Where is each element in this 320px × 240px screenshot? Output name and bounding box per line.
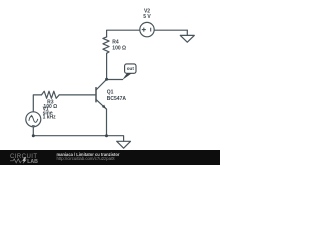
emitter arrow <box>102 105 106 109</box>
svg-text:LAB: LAB <box>27 159 38 165</box>
svg-text:5 V: 5 V <box>143 14 151 20</box>
node B <box>32 134 35 137</box>
wire <box>154 29 187 31</box>
V2 plus sign <box>142 28 146 32</box>
wire <box>32 127 34 136</box>
footer logo zigzag <box>10 159 21 163</box>
svg-text:http://circuitlab.com/c7u2zpa0: http://circuitlab.com/c7u2zpa0t <box>57 156 116 161</box>
wire <box>106 109 108 136</box>
out flag <box>122 64 136 80</box>
V1 sine arrowhead <box>30 115 33 118</box>
node A <box>105 78 108 81</box>
wire <box>33 95 41 112</box>
wire <box>107 30 140 37</box>
svg-text:out: out <box>127 66 135 71</box>
ground <box>117 141 131 148</box>
V1 sine symbol <box>29 116 38 122</box>
transistor Q1 <box>95 88 97 102</box>
footer logo bolt <box>22 157 26 163</box>
svg-text:BC547A: BC547A <box>107 96 127 102</box>
V1 minus sign <box>32 125 35 127</box>
node C <box>105 134 108 137</box>
wire <box>59 94 96 96</box>
ground <box>180 30 194 42</box>
svg-text:100 Ω: 100 Ω <box>112 45 126 51</box>
voltage source V1 <box>26 112 41 127</box>
V2 minus sign <box>150 28 152 32</box>
wire <box>106 53 108 79</box>
resistor R4 <box>103 37 109 53</box>
voltage source V2 <box>140 22 154 36</box>
svg-text:1 kHz: 1 kHz <box>43 114 57 120</box>
svg-text:Q1: Q1 <box>107 90 114 96</box>
wire <box>107 79 123 81</box>
wire <box>33 136 123 142</box>
resistor R3 <box>42 91 60 98</box>
footer bar <box>0 150 220 165</box>
